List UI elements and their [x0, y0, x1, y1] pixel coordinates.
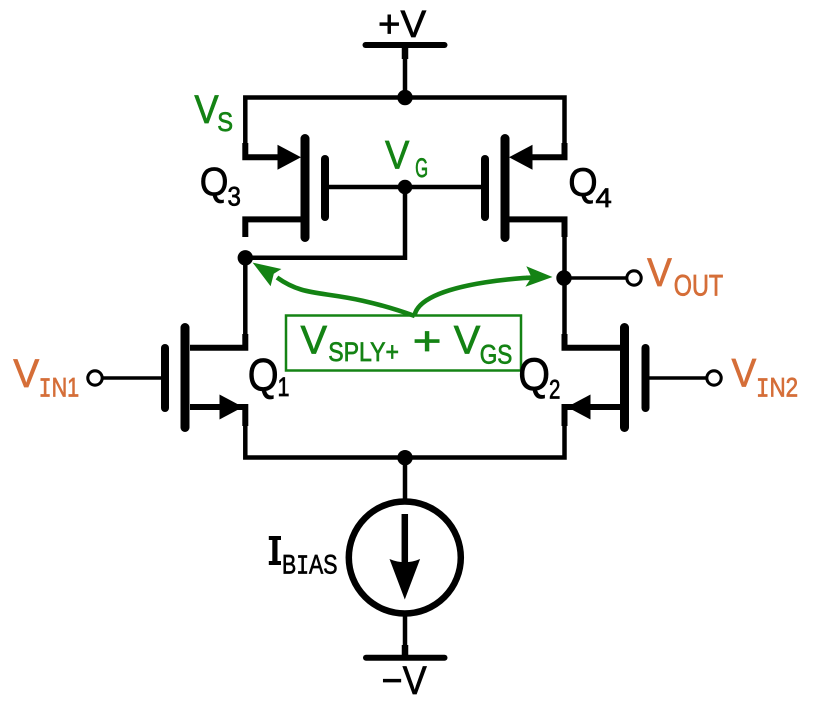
- svg-text:+V: +V: [378, 4, 427, 46]
- svg-text:GS: GS: [480, 340, 513, 370]
- power rail +V: [366, 4, 445, 97]
- transistor Q4: [485, 139, 565, 238]
- power rail -V: [366, 658, 445, 703]
- svg-text:1: 1: [278, 372, 290, 402]
- wire VG diode connection: [245, 187, 405, 258]
- label VG: [385, 133, 428, 183]
- svg-text:V: V: [13, 352, 39, 396]
- svg-text:Q: Q: [518, 349, 550, 400]
- svg-text:Q: Q: [200, 161, 229, 205]
- svg-text:IN2: IN2: [756, 373, 798, 406]
- transistor Q2: [565, 328, 646, 428]
- annotation arrow to VOUT node: [415, 266, 553, 315]
- annotation box VSPLY+VGS: [286, 316, 521, 371]
- wire VOUT node to terminal: [565, 276, 628, 280]
- wire Q4 drain to VOUT node: [562, 235, 567, 278]
- terminal VIN1: [88, 371, 102, 385]
- svg-text:Q: Q: [568, 161, 597, 205]
- label Q2: [518, 349, 560, 404]
- node VOUT: [556, 270, 571, 285]
- wire VIN1 to Q1 gate: [102, 376, 161, 379]
- svg-text:+: +: [413, 319, 442, 363]
- svg-text:V: V: [454, 319, 481, 363]
- label Q4: [568, 161, 612, 213]
- wire gate bus VG: [325, 185, 485, 190]
- svg-text:3: 3: [228, 182, 241, 212]
- node Q3 drain: [238, 250, 253, 265]
- annotation arrow to Q3 drain: [253, 263, 415, 316]
- node VG: [398, 180, 413, 195]
- svg-text:V: V: [647, 251, 672, 295]
- wire top rail: [245, 98, 564, 147]
- svg-text:V: V: [385, 133, 410, 177]
- svg-text:Q: Q: [248, 350, 279, 401]
- wire tail to current source: [403, 458, 408, 501]
- svg-text:−V: −V: [382, 659, 427, 703]
- svg-text:SPLY+: SPLY+: [328, 337, 399, 367]
- svg-text:G: G: [415, 153, 428, 183]
- label VIN1: [13, 352, 79, 405]
- transistor Q3: [245, 139, 325, 238]
- svg-text:S: S: [217, 107, 233, 137]
- svg-text:IN1: IN1: [39, 372, 80, 405]
- wire VOUT node to Q2 drain: [562, 278, 567, 337]
- label VIN2: [732, 351, 799, 405]
- label IBIAS: [269, 536, 338, 583]
- node tail junction: [397, 450, 412, 465]
- label VOUT: [647, 251, 723, 302]
- node supply junction: [397, 90, 412, 105]
- svg-text:V: V: [732, 351, 757, 395]
- wire Q2 gate to VIN2: [650, 376, 708, 379]
- svg-text:2: 2: [549, 374, 560, 404]
- svg-text:4: 4: [596, 183, 612, 213]
- transistor Q1: [165, 328, 245, 428]
- svg-text:OUT: OUT: [674, 269, 723, 302]
- current source IBIAS: [349, 502, 461, 614]
- wire current source to -V: [403, 614, 408, 658]
- label Q1: [248, 350, 290, 403]
- wire Q3 drain to Q1 drain: [243, 258, 248, 337]
- terminal VOUT: [627, 271, 641, 285]
- label VS: [194, 88, 233, 137]
- terminal VIN2: [707, 371, 721, 385]
- label Q3: [200, 161, 241, 212]
- svg-text:BIAS: BIAS: [282, 550, 338, 583]
- svg-text:V: V: [194, 88, 219, 132]
- svg-text:V: V: [301, 319, 328, 363]
- wire tail rail: [245, 426, 564, 458]
